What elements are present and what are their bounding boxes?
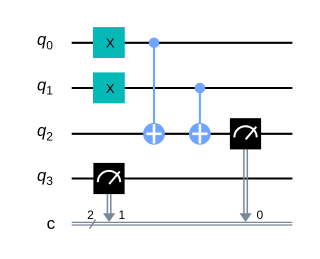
measure gate on q3 [93, 163, 124, 194]
wire q1 [72, 87, 293, 89]
classical bundle size 2 slash [90, 220, 96, 229]
svg-text:2: 2 [87, 208, 94, 222]
gate X (q1) [93, 72, 125, 103]
wire q2 [72, 133, 293, 135]
svg-text:X: X [106, 36, 115, 51]
measure q2 arrow to c (double line) [240, 149, 252, 222]
wire control line [199, 88, 201, 134]
measure q3 arrow to c (double line) [103, 194, 115, 222]
svg-text:1: 1 [118, 208, 125, 222]
classical wire c (double line) [72, 222, 293, 225]
svg-text:0: 0 [256, 208, 263, 222]
svg-text:c: c [47, 214, 56, 233]
measure gate on q2 [230, 118, 261, 149]
control dot on q1 [195, 83, 206, 94]
wire q3 [72, 177, 293, 179]
target plus on q2 [189, 123, 211, 145]
CNOT 1: control q0, target q2 [143, 38, 165, 145]
control dot on q0 [149, 38, 160, 49]
CNOT 2: control q1, target q2 [189, 83, 211, 145]
svg-text:X: X [106, 81, 115, 96]
wire control line [153, 43, 155, 134]
gate X (q0) [93, 27, 125, 58]
target plus on q2 [143, 123, 165, 145]
wire q0 [72, 42, 293, 44]
